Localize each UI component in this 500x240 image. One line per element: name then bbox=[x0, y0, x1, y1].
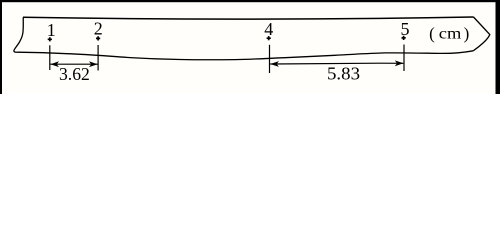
arrowhead left of 3.62 bbox=[50, 61, 59, 67]
svg-text:2: 2 bbox=[94, 18, 103, 38]
tick mark 2 (plus) bbox=[96, 36, 100, 40]
extension line at mark 1 bbox=[49, 45, 51, 70]
arrowhead left of 5.83 bbox=[270, 61, 279, 67]
frame top border bbox=[0, 0, 500, 2]
svg-text:3.62: 3.62 bbox=[59, 64, 90, 84]
svg-text:4: 4 bbox=[264, 19, 273, 39]
frame left border bbox=[0, 0, 2, 94]
svg-text:cm: cm bbox=[439, 26, 462, 43]
ruler right break squiggle bbox=[473, 17, 490, 51]
extension line at mark 2 bbox=[97, 45, 99, 71]
extension line at mark 5 bbox=[403, 45, 405, 72]
extension line at mark 4 bbox=[269, 45, 271, 73]
svg-text:5.83: 5.83 bbox=[327, 64, 360, 84]
dimension line 3.62 bbox=[50, 63, 97, 65]
svg-text:1: 1 bbox=[47, 20, 56, 40]
ruler bottom edge bbox=[18, 51, 474, 60]
tick mark 1 (plus) bbox=[48, 37, 52, 41]
arrowhead right of 3.62 bbox=[89, 61, 98, 67]
dimension line 5.83 bbox=[270, 62, 403, 65]
arrowhead right of 5.83 bbox=[395, 60, 404, 66]
ruler top edge bbox=[23, 17, 474, 19]
svg-text:): ) bbox=[464, 24, 470, 43]
svg-text:(: ( bbox=[429, 24, 435, 43]
tick mark 5 (plus) bbox=[402, 36, 406, 40]
frame right border bbox=[496, 0, 500, 94]
svg-text:5: 5 bbox=[401, 19, 410, 39]
ruler left break squiggle bbox=[14, 17, 23, 52]
tick mark 4 (plus) bbox=[267, 36, 271, 40]
